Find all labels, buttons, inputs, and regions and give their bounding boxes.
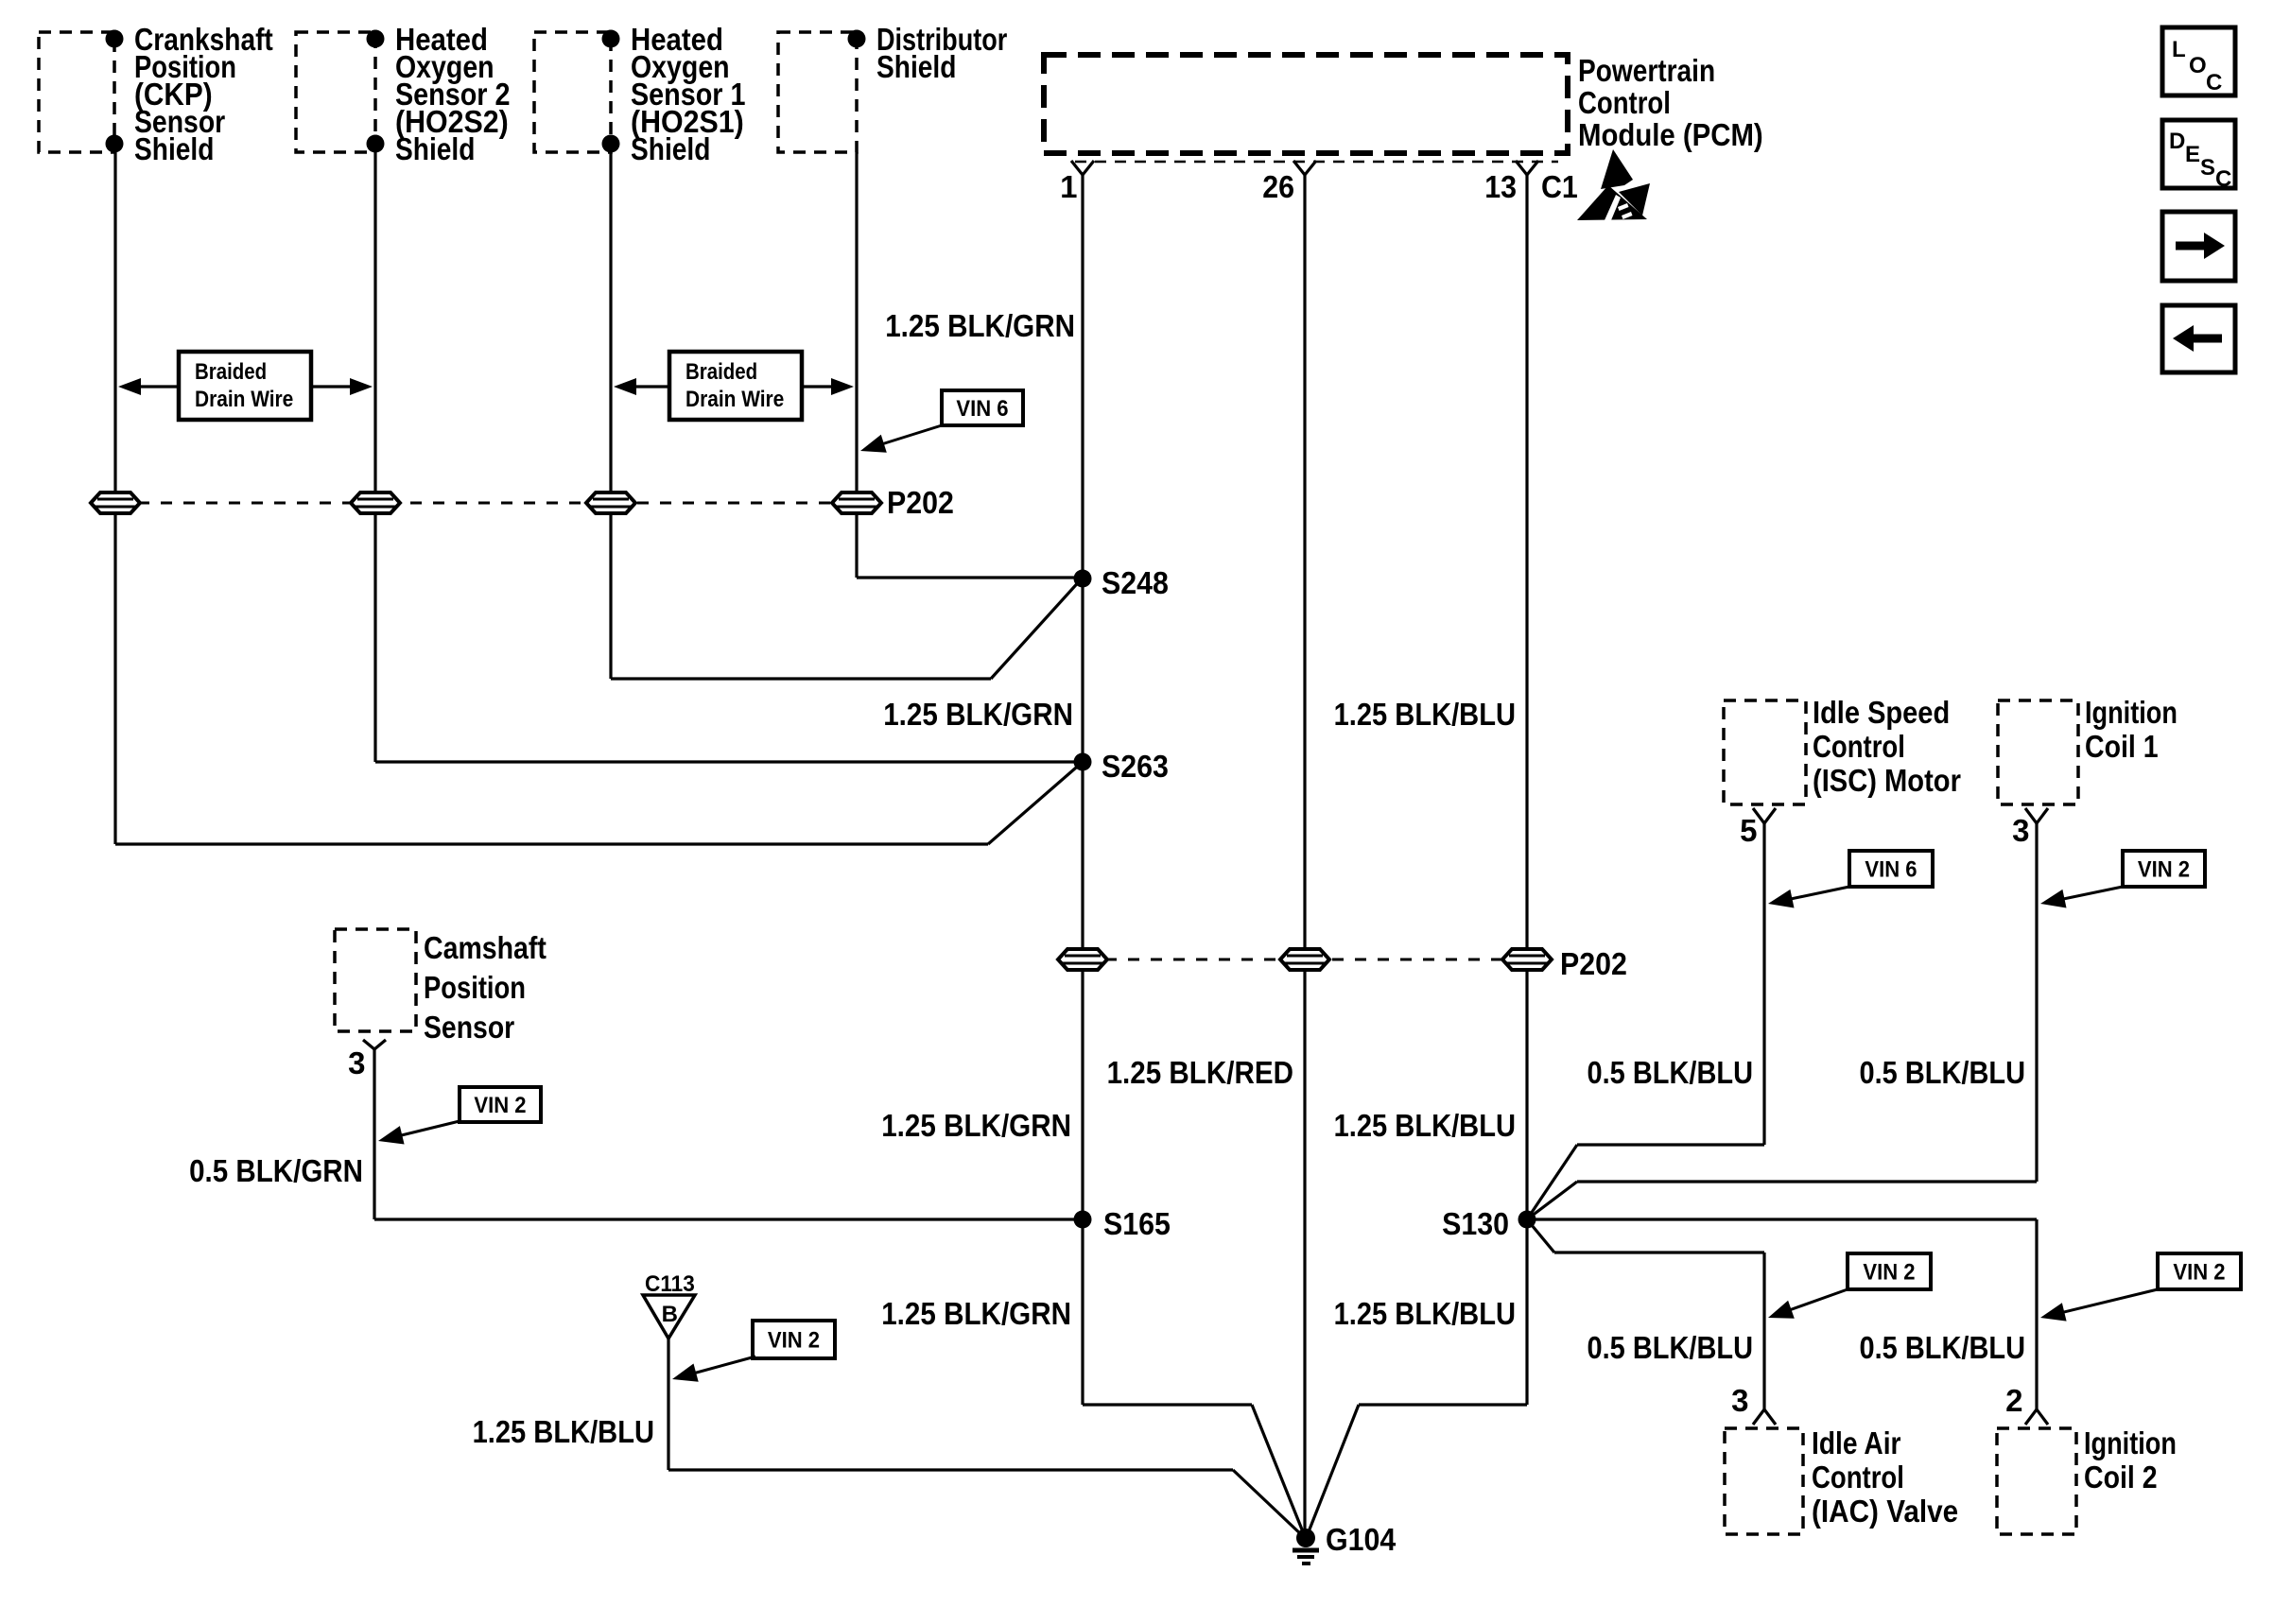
- svg-text:1.25 BLK/BLU: 1.25 BLK/BLU: [1334, 697, 1516, 732]
- svg-text:1.25 BLK/RED: 1.25 BLK/RED: [1107, 1055, 1293, 1090]
- svg-text:0.5 BLK/GRN: 0.5 BLK/GRN: [189, 1153, 363, 1188]
- svg-text:VIN 2: VIN 2: [2173, 1260, 2225, 1286]
- svg-text:13: 13: [1484, 169, 1517, 204]
- svg-text:1: 1: [1060, 169, 1077, 204]
- svg-text:Ignition: Ignition: [2084, 1425, 2177, 1460]
- svg-text:VIN 2: VIN 2: [474, 1093, 526, 1118]
- svg-text:P202: P202: [1560, 946, 1627, 981]
- svg-text:Shield: Shield: [134, 131, 214, 166]
- svg-text:3: 3: [1731, 1383, 1748, 1418]
- svg-text:0.5 BLK/BLU: 0.5 BLK/BLU: [1588, 1055, 1754, 1090]
- svg-text:26: 26: [1262, 169, 1294, 204]
- svg-text:Coil 2: Coil 2: [2084, 1460, 2158, 1494]
- svg-text:1.25 BLK/GRN: 1.25 BLK/GRN: [883, 697, 1073, 732]
- svg-text:G104: G104: [1326, 1522, 1397, 1557]
- svg-text:Shield: Shield: [876, 49, 956, 84]
- svg-text:Coil 1: Coil 1: [2085, 729, 2159, 764]
- svg-text:D: D: [2169, 129, 2185, 154]
- svg-text:1.25 BLK/BLU: 1.25 BLK/BLU: [473, 1414, 654, 1449]
- svg-text:VIN 2: VIN 2: [1863, 1260, 1915, 1286]
- svg-text:Shield: Shield: [631, 131, 710, 166]
- svg-text:0.5 BLK/BLU: 0.5 BLK/BLU: [1588, 1330, 1754, 1365]
- svg-text:S263: S263: [1102, 749, 1169, 784]
- svg-text:B: B: [662, 1302, 678, 1327]
- svg-text:Sensor: Sensor: [424, 1010, 514, 1045]
- svg-text:Powertrain: Powertrain: [1578, 53, 1715, 88]
- svg-text:VIN 2: VIN 2: [2138, 857, 2190, 883]
- svg-text:C1: C1: [1541, 169, 1578, 204]
- svg-text:3: 3: [2012, 813, 2029, 848]
- svg-text:1.25 BLK/GRN: 1.25 BLK/GRN: [885, 308, 1075, 343]
- svg-text:Position: Position: [424, 970, 526, 1005]
- svg-text:Idle Air: Idle Air: [1812, 1425, 1901, 1460]
- svg-text:L: L: [2172, 37, 2186, 62]
- svg-text:Camshaft: Camshaft: [424, 930, 547, 965]
- svg-text:S248: S248: [1102, 565, 1169, 600]
- svg-text:Drain Wire: Drain Wire: [685, 387, 784, 412]
- svg-text:0.5 BLK/BLU: 0.5 BLK/BLU: [1860, 1330, 2026, 1365]
- svg-text:Ignition: Ignition: [2085, 695, 2178, 730]
- svg-text:VIN 6: VIN 6: [1865, 857, 1917, 883]
- svg-text:C: C: [2206, 70, 2222, 95]
- svg-text:(ISC) Motor: (ISC) Motor: [1813, 763, 1961, 798]
- svg-text:Braided: Braided: [685, 359, 757, 385]
- svg-text:Module (PCM): Module (PCM): [1578, 117, 1763, 152]
- svg-text:C: C: [2215, 166, 2231, 192]
- svg-text:VIN 2: VIN 2: [768, 1328, 820, 1354]
- svg-text:Shield: Shield: [395, 131, 475, 166]
- svg-text:Drain Wire: Drain Wire: [195, 387, 293, 412]
- svg-text:5: 5: [1740, 813, 1757, 848]
- svg-text:E: E: [2185, 142, 2200, 167]
- svg-text:S165: S165: [1103, 1206, 1171, 1241]
- svg-text:1.25 BLK/BLU: 1.25 BLK/BLU: [1334, 1296, 1516, 1331]
- svg-text:Control: Control: [1813, 729, 1905, 764]
- svg-text:Idle Speed: Idle Speed: [1813, 695, 1950, 730]
- svg-text:0.5 BLK/BLU: 0.5 BLK/BLU: [1860, 1055, 2026, 1090]
- svg-text:Control: Control: [1812, 1460, 1904, 1494]
- svg-text:C113: C113: [645, 1271, 695, 1297]
- svg-text:VIN 6: VIN 6: [956, 396, 1008, 422]
- svg-text:2: 2: [2005, 1383, 2022, 1418]
- svg-text:P202: P202: [887, 485, 954, 520]
- svg-text:1.25 BLK/GRN: 1.25 BLK/GRN: [881, 1108, 1071, 1143]
- svg-text:Control: Control: [1578, 85, 1671, 120]
- svg-text:S130: S130: [1442, 1206, 1509, 1241]
- svg-text:S: S: [2200, 155, 2215, 181]
- svg-text:1.25 BLK/BLU: 1.25 BLK/BLU: [1334, 1108, 1516, 1143]
- svg-text:1.25 BLK/GRN: 1.25 BLK/GRN: [881, 1296, 1071, 1331]
- svg-text:Braided: Braided: [195, 359, 267, 385]
- svg-text:(IAC) Valve: (IAC) Valve: [1812, 1494, 1958, 1529]
- svg-text:O: O: [2189, 53, 2207, 78]
- svg-text:3: 3: [348, 1045, 365, 1080]
